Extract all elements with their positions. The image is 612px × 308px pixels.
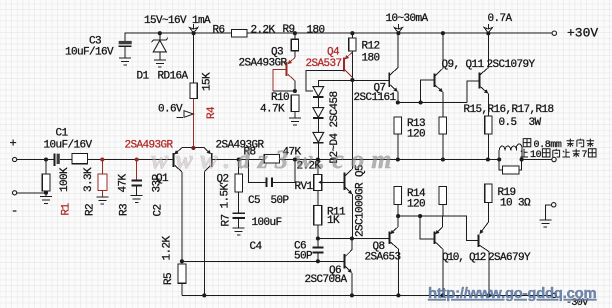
svg-text:Q2: Q2: [217, 174, 229, 186]
svg-text:R1: R1: [61, 202, 73, 215]
svg-text:2SA537: 2SA537: [306, 58, 342, 70]
svg-text:R9: R9: [283, 24, 295, 36]
ground (below C4): [233, 228, 245, 235]
ground (below D1): [154, 60, 166, 67]
svg-text:0.6V: 0.6V: [158, 104, 183, 116]
resistor R14 (right): [439, 187, 447, 217]
resistor R13 (left): [394, 117, 402, 160]
svg-text:R10: R10: [271, 92, 289, 104]
svg-text:7: 7: [582, 150, 588, 161]
svg-text:R5: R5: [163, 273, 175, 285]
wire: to output terminal: [522, 159, 552, 161]
wire: bias line (diode top to Q7 base): [318, 80, 389, 86]
svg-text:Q1: Q1: [156, 173, 169, 185]
svg-text:47K: 47K: [118, 173, 130, 192]
wire: base riser Q9: [421, 80, 434, 102]
svg-text:2SA493GR: 2SA493GR: [239, 58, 288, 70]
svg-text:Q10, Q12: Q10, Q12: [442, 252, 486, 264]
node: output terminal: [552, 157, 556, 161]
current arrow 0.7A: [484, 24, 492, 33]
input terminal - and ground return: [13, 191, 17, 195]
wire: common emitter link: [182, 147, 204, 149]
transistor Q12: [479, 203, 489, 296]
node on rail at R12: [350, 31, 354, 35]
label coil note line1 (Chinese: use 0.8mm enameled wire): [523, 139, 531, 147]
resistor R19 10 (3 ohm): [485, 184, 492, 202]
node R7 top: [237, 157, 241, 161]
current arrow 10-30mA: [394, 24, 402, 33]
resistor R7 1.5K: [235, 160, 243, 213]
svg-text:4.7K: 4.7K: [260, 104, 285, 116]
resistor R12 180: [349, 33, 356, 80]
ground (below R10): [289, 118, 301, 125]
svg-text:R7: R7: [221, 214, 233, 226]
svg-text:-: -: [11, 204, 18, 218]
svg-text:R6: R6: [213, 24, 225, 36]
svg-text:R12: R12: [362, 41, 380, 53]
resistor R1 100K: [42, 160, 50, 193]
svg-text:2SC1000GR Q5: 2SC1000GR Q5: [355, 165, 367, 237]
svg-text:10uF/16V: 10uF/16V: [44, 140, 93, 152]
svg-text:+30V: +30V: [567, 26, 598, 41]
resistor R4 15K: [190, 33, 197, 148]
transistor Q8 2SA653: [389, 216, 398, 295]
svg-text:180: 180: [307, 25, 325, 37]
svg-text:http://www.go-gddq.com: http://www.go-gddq.com: [428, 286, 597, 302]
resistor R14 (left): [394, 187, 402, 217]
svg-text:+: +: [10, 137, 17, 151]
diodes D2~D4 (2SC458) chain: [313, 87, 324, 160]
wire: -30V bottom rail: [182, 294, 552, 296]
capacitor C6 50P: [312, 239, 323, 264]
nodes on output feedback line: [396, 157, 400, 161]
svg-text:D1: D1: [137, 71, 150, 83]
inductor L1 (coil on R 10ohm): [488, 144, 524, 162]
svg-text:RD16A: RD16A: [158, 71, 189, 83]
svg-text:C2: C2: [153, 204, 165, 216]
svg-text:50P: 50P: [294, 251, 313, 263]
svg-text:1K: 1K: [327, 215, 340, 227]
current arrow 1mA into rail: [189, 24, 197, 33]
ground (below R3): [96, 197, 108, 204]
ground (below R1): [40, 193, 52, 204]
capacitor C1 10uF/16V: [55, 154, 59, 166]
wire: +30V top rail: [125, 32, 553, 34]
wire: line A (Q5 emitter to Q8 base): [318, 238, 389, 240]
svg-text:180: 180: [362, 53, 380, 65]
svg-text:10: 10: [530, 150, 542, 161]
wire: Q1 collector down to R5: [181, 172, 183, 261]
svg-text:0.7A: 0.7A: [488, 13, 513, 25]
svg-text:120: 120: [407, 129, 425, 141]
wire: base riser Q11: [467, 81, 479, 103]
svg-text:Q9, Q11: Q9, Q11: [442, 59, 485, 71]
svg-text:2SC1161: 2SC1161: [354, 92, 397, 104]
svg-text:120: 120: [407, 199, 425, 211]
node: -30V terminal: [552, 293, 556, 297]
transistor Q1 (diff pair left): [173, 148, 182, 172]
resistor R13 (right): [439, 117, 447, 160]
svg-text:100K: 100K: [59, 167, 71, 192]
svg-text:2SA679Y: 2SA679Y: [488, 252, 531, 264]
svg-text:2SC708A: 2SC708A: [305, 274, 348, 286]
svg-text:2.2K: 2.2K: [251, 24, 276, 36]
svg-text:10uF/16V: 10uF/16V: [65, 47, 114, 59]
resistor R10 4.7K: [291, 95, 299, 118]
svg-text:2SA653: 2SA653: [365, 252, 401, 264]
wire: Q2 collector down to rail: [203, 172, 205, 296]
svg-text:RV1: RV1: [295, 181, 314, 193]
svg-text:C4: C4: [250, 241, 263, 253]
resistor 10ohm (under coil): [499, 160, 521, 175]
svg-text:100uF: 100uF: [252, 217, 282, 229]
svg-text:50P: 50P: [271, 195, 290, 207]
zener diode D1 RD16A: [152, 31, 168, 60]
ground (below C2): [131, 196, 143, 203]
node bias column on feedback line: [316, 157, 320, 161]
svg-text:0.5: 0.5: [499, 117, 517, 129]
ground (below C3): [119, 58, 131, 65]
svg-text:R2: R2: [85, 204, 97, 216]
node C2 top (red): [135, 157, 139, 161]
transistor Q6 2SC708A: [345, 239, 352, 296]
wire: Q7 emitter to driver bases: [398, 102, 467, 104]
node: +30V terminal: [552, 31, 556, 35]
svg-text:1.2K: 1.2K: [162, 235, 174, 260]
svg-text:10 3Ω: 10 3Ω: [500, 198, 531, 210]
capacitor C3: [119, 33, 132, 58]
svg-text:C5: C5: [248, 195, 260, 207]
node R3 top (red): [100, 157, 104, 161]
node on rail at R4: [192, 31, 196, 35]
svg-text:1.5K: 1.5K: [220, 183, 232, 208]
svg-text:10~30mA: 10~30mA: [386, 13, 429, 25]
wire: output line (emitter junction): [397, 216, 478, 240]
svg-text:R15,R16,R17,R18: R15,R16,R17,R18: [464, 104, 554, 116]
trimmer RV1 2.2K: [314, 160, 345, 206]
label coil note line2 (Chinese: wind 7 turns on the 10 ohm resistor): [520, 149, 528, 157]
transistor Q5 2SC1000GR: [345, 80, 353, 239]
resistor R2 3.3K (series, horizontal): [72, 153, 88, 163]
node: speaker ground terminal: [552, 203, 556, 207]
transistor Q11: [479, 33, 488, 116]
resistor R11 1K: [314, 205, 322, 238]
svg-text:3.3K: 3.3K: [83, 167, 95, 192]
svg-text:R4: R4: [206, 106, 218, 119]
transistor Q10: [434, 216, 442, 295]
input terminal +: [13, 157, 17, 161]
ground (speaker return): [539, 220, 551, 227]
svg-text:Q4: Q4: [327, 47, 340, 59]
svg-text:15V~16V 1mA: 15V~16V 1mA: [144, 15, 211, 27]
svg-text:www.dz3w.com: www.dz3w.com: [151, 145, 399, 174]
capacitor C5 50P (parallel): [249, 160, 295, 188]
svg-text:2SC1079Y: 2SC1079Y: [487, 59, 536, 71]
svg-text:3W: 3W: [529, 117, 542, 129]
capacitor C4 100uF: [233, 213, 245, 227]
node R1 top: [44, 157, 48, 161]
svg-text:15K: 15K: [202, 72, 214, 91]
resistor R5 1.2K: [178, 264, 186, 296]
resistor R3 47K (red outline): [98, 160, 107, 197]
wire: Q2 base feedback line: [213, 159, 488, 161]
capacitor C2 33P: [132, 160, 142, 196]
wire: line B (Q1 collector to Q6 base): [182, 260, 344, 262]
wire: Q10 base tap: [420, 216, 434, 239]
transistor Q9: [434, 31, 445, 117]
transistor Q2 (diff pair right): [204, 148, 212, 172]
wire: input line to Q1 base: [17, 159, 54, 161]
svg-text:R3: R3: [119, 204, 131, 216]
svg-text:C1: C1: [56, 128, 69, 140]
